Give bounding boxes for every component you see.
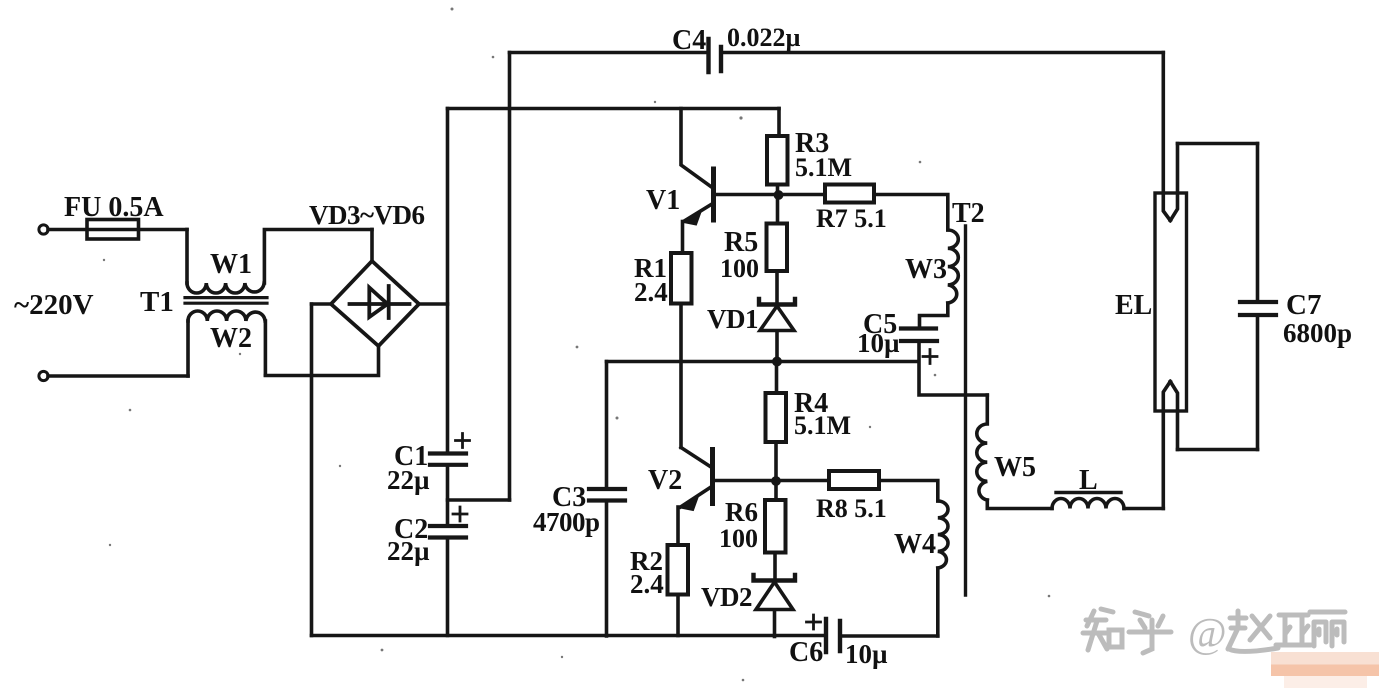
node mid junction <box>772 357 782 367</box>
svg-text:L: L <box>1079 465 1098 496</box>
svg-text:C7: C7 <box>1286 289 1321 321</box>
wire C4 left vertical <box>508 53 512 501</box>
svg-text:W5: W5 <box>994 452 1036 483</box>
lamp bottom filament left lead <box>1163 382 1170 509</box>
svg-text:W4: W4 <box>894 529 936 560</box>
wire lamp to C7 top <box>1178 142 1258 146</box>
transistor V1 base bar <box>711 169 716 220</box>
wire bridge top vertex to W1 <box>370 230 374 262</box>
fuse FU <box>87 220 139 240</box>
wire R8 left <box>776 479 829 483</box>
wire R7 left <box>779 193 825 197</box>
wire C5 down <box>919 341 987 395</box>
wire bridge right vertex to positive rail <box>419 302 448 306</box>
capacitor C5 <box>901 329 937 342</box>
wire C2 to bottom rail <box>446 538 450 636</box>
wire V2 emitter to R2 <box>676 507 680 545</box>
terminal top-left input <box>39 225 48 234</box>
wire positive rail vertical x448 <box>446 109 450 454</box>
wire W3 to C5 <box>920 303 948 328</box>
wire R1 to V2 collector <box>679 304 683 448</box>
resistor R4 <box>766 393 787 442</box>
winding W1 <box>187 283 264 293</box>
svg-text:10µ: 10µ <box>845 639 888 669</box>
wire bottom rail right of C6 <box>840 634 938 638</box>
svg-text:W2: W2 <box>210 323 252 354</box>
diode VD1 <box>759 299 795 305</box>
svg-text:T1: T1 <box>140 286 174 318</box>
transformer T1 core <box>185 298 267 304</box>
transistor V2 emitter arrow <box>683 498 698 511</box>
svg-text:22µ: 22µ <box>387 465 430 495</box>
wire C3 to bottom rail <box>605 501 609 637</box>
transistor V1 base wire <box>714 193 780 197</box>
paper speckles <box>103 8 1050 682</box>
wire VD2 to bottom rail <box>773 610 777 637</box>
wire R5 to VD1 <box>775 271 779 304</box>
inductor L core bar <box>1056 491 1121 494</box>
terminal bottom-left input <box>39 371 48 380</box>
wire V1 emitter to R1 <box>681 222 685 254</box>
capacitor C4 <box>709 39 722 72</box>
wire R2 to bottom rail <box>676 595 680 636</box>
winding W5 <box>977 395 988 500</box>
C1 plus sign <box>456 434 470 448</box>
capacitor C1 <box>430 454 466 465</box>
resistor R4 top wire <box>775 362 779 394</box>
wire VD1 to mid junction <box>775 332 779 362</box>
resistor R1 <box>671 253 692 304</box>
resistor R2 <box>668 545 689 595</box>
transistor V1 emitter <box>684 204 713 222</box>
wire W2 left leg <box>186 321 190 376</box>
svg-text:4700p: 4700p <box>533 507 600 537</box>
winding W3 <box>948 230 959 303</box>
resistor R3 <box>767 136 788 185</box>
top rail left segment <box>510 51 707 55</box>
capacitor C3 <box>589 489 625 501</box>
node V2 base junction <box>771 476 781 486</box>
svg-text:VD3~VD6: VD3~VD6 <box>309 200 425 230</box>
C2 plus sign <box>453 507 467 521</box>
resistor R7 <box>825 185 874 203</box>
transistor V1 emitter arrow <box>686 212 701 225</box>
wire mid horizontal <box>607 360 919 364</box>
wire C1 C2 midpoint link <box>448 498 510 502</box>
svg-text:W3: W3 <box>905 254 947 285</box>
capacitor C7 <box>1240 302 1276 315</box>
transistor V2 base wire <box>713 479 777 483</box>
wire L to lamp <box>1124 507 1163 511</box>
wire bottom rail left <box>312 634 827 638</box>
top rail right segment <box>723 51 1163 55</box>
wire bridge left vertex stub <box>312 302 332 306</box>
resistor R3 top wire <box>777 109 781 137</box>
C5 plus sign <box>923 350 937 364</box>
lamp EL tube <box>1155 193 1187 411</box>
svg-text:FU 0.5A: FU 0.5A <box>64 192 164 223</box>
wire W1 right up <box>264 230 372 284</box>
wire R7 to W3 <box>874 195 948 231</box>
svg-text:EL: EL <box>1115 290 1152 321</box>
C6 plus sign <box>807 615 821 629</box>
svg-text:~220V: ~220V <box>14 289 94 321</box>
svg-text:C4: C4 <box>672 25 706 56</box>
bridge diode symbol <box>350 286 410 318</box>
lamp bottom filament right lead <box>1170 382 1177 450</box>
capacitor C3 top wire <box>605 362 609 490</box>
svg-text:2.4: 2.4 <box>630 569 664 599</box>
resistor R5 <box>767 224 788 272</box>
wire W5 to L <box>987 500 1052 509</box>
transistor V2 base bar <box>710 450 715 504</box>
svg-text:VD1: VD1 <box>707 304 758 334</box>
inductor L <box>1052 499 1124 509</box>
wire R8 to W4 <box>879 481 938 502</box>
svg-text:100: 100 <box>719 524 758 553</box>
svg-text:100: 100 <box>720 254 759 283</box>
svg-text:22µ: 22µ <box>387 536 430 566</box>
pink censor blocks <box>1271 652 1379 665</box>
capacitor C2 <box>430 526 466 538</box>
winding W4 <box>938 501 948 568</box>
watermark zhihu <box>1083 609 1345 653</box>
resistor R8 <box>829 471 879 489</box>
wire negative left vertical <box>310 304 314 636</box>
wire C7 bottom vertical <box>1256 315 1260 450</box>
wire rail2 horizontal <box>448 107 780 111</box>
svg-text:R8 5.1: R8 5.1 <box>816 494 887 523</box>
svg-text:@: @ <box>1188 611 1227 657</box>
wire R3 to base junction <box>776 185 780 196</box>
wire junction to R5 <box>776 195 780 224</box>
svg-text:2.4: 2.4 <box>634 277 668 307</box>
svg-text:T2: T2 <box>952 198 985 229</box>
transistor V2 collector diagonal <box>681 448 711 468</box>
lamp top filament left lead <box>1163 53 1170 221</box>
svg-text:10µ: 10µ <box>857 328 900 358</box>
wire C7 top vertical <box>1256 144 1260 303</box>
lamp top filament right lead <box>1170 144 1177 221</box>
capacitor C6 <box>826 619 840 652</box>
svg-text:6800p: 6800p <box>1283 318 1352 348</box>
svg-text:0.022µ: 0.022µ <box>727 23 801 52</box>
wire C1 to C2 <box>446 465 450 526</box>
wire W2 to bridge bottom vertex <box>265 346 378 376</box>
wire terminal to fuse <box>48 228 187 232</box>
winding W2 <box>188 311 265 321</box>
wire W2 right leg <box>264 321 268 375</box>
svg-text:C6: C6 <box>789 637 823 668</box>
bridge rectifier VD3~VD6 diamond <box>331 261 419 346</box>
wire R4 to V2 base junction <box>774 442 778 481</box>
transformer T2 core <box>964 226 967 595</box>
node V1 base junction <box>774 190 784 200</box>
svg-text:V1: V1 <box>646 185 680 216</box>
svg-text:R6: R6 <box>725 497 758 527</box>
svg-text:W1: W1 <box>210 249 252 280</box>
transistor V1 collector wire <box>681 109 712 188</box>
wire fuse to W1 <box>185 230 189 284</box>
transistor V2 emitter <box>681 487 712 507</box>
svg-text:V2: V2 <box>648 465 682 496</box>
diode VD2 <box>754 575 796 581</box>
svg-text:5.1M: 5.1M <box>795 153 852 182</box>
wire R6 to VD2 <box>773 553 777 581</box>
wire bottom input to W2 <box>48 374 188 378</box>
wire junction to R6 <box>774 481 778 500</box>
svg-text:VD2: VD2 <box>701 582 752 612</box>
resistor R6 <box>765 500 786 553</box>
wire W4 to bottom rail <box>936 568 940 636</box>
svg-text:R7 5.1: R7 5.1 <box>816 204 887 233</box>
svg-text:5.1M: 5.1M <box>794 411 851 440</box>
wire C7 bottom to lamp <box>1178 448 1258 452</box>
